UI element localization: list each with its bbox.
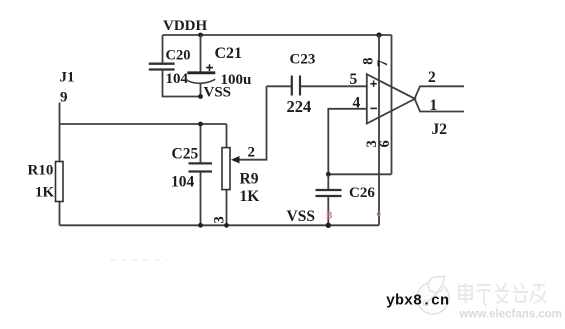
- R9 wiper wire from pin 2: [233, 86, 267, 159]
- op-amp output wires to J2: [415, 86, 464, 111]
- node R9 bottom on rail: [224, 223, 229, 228]
- wire bottom VSS rail: [60, 224, 380, 226]
- svg-text:104: 104: [171, 174, 195, 191]
- svg-text:C25: C25: [172, 146, 199, 163]
- svg-text:VSS: VSS: [287, 208, 315, 225]
- wire power line pin8/pin3 vertical: [378, 35, 380, 225]
- svg-text:9: 9: [60, 90, 68, 106]
- svg-text:104: 104: [166, 71, 189, 87]
- svg-text:R9: R9: [240, 171, 259, 188]
- svg-text:R10: R10: [28, 163, 54, 179]
- svg-text:www.elecfans.com: www.elecfans.com: [459, 309, 562, 321]
- svg-text:J2: J2: [432, 121, 448, 138]
- svg-text:C20: C20: [166, 48, 191, 64]
- svg-text:J1: J1: [60, 70, 75, 86]
- svg-text:2: 2: [428, 69, 436, 86]
- watermark logo circle: [417, 276, 449, 314]
- wire C26 bottom lead: [327, 196, 329, 225]
- capacitor C23: [292, 76, 300, 96]
- wire J1 pin9 vertical lead: [59, 103, 61, 226]
- svg-text:2: 2: [248, 145, 256, 161]
- faint artifact dashed line: [110, 259, 167, 261]
- svg-text:C23: C23: [290, 52, 316, 68]
- node VDDH junction at C21 branch: [198, 33, 203, 38]
- wire C21 bottom lead: [200, 84, 202, 97]
- svg-text:1: 1: [430, 97, 438, 114]
- capacitor C21 polarized: [187, 73, 216, 84]
- op-amp U1 triangle: [367, 74, 415, 123]
- op-amp minus input symbol: [370, 107, 377, 109]
- svg-text:3: 3: [211, 216, 227, 223]
- svg-text:C21: C21: [215, 45, 243, 62]
- node C26 bottom on rail: [326, 223, 331, 228]
- watermark chinese characters: [459, 283, 546, 305]
- wire J1 branch to R9: [60, 123, 227, 125]
- resistor R10: [56, 162, 64, 202]
- wire C23 right lead to op-amp pin5: [300, 85, 367, 87]
- node C25 bottom on rail: [198, 223, 203, 228]
- node VSS junction C20/C21: [198, 94, 203, 99]
- capacitor C26: [316, 190, 342, 196]
- C21 plus sign: [206, 64, 213, 71]
- wire C26 top lead: [327, 174, 329, 190]
- node VDDH junction at op-amp pin8 line: [376, 32, 381, 37]
- wire top VDDH rail: [163, 34, 392, 36]
- capacitor C20: [149, 64, 175, 70]
- wire power line pin7/pin6 vertical: [391, 35, 393, 174]
- svg-text:C26: C26: [349, 185, 375, 201]
- wire C20 bottom lead to VSS node: [163, 70, 201, 97]
- node branch junction at C25: [198, 122, 203, 127]
- op-amp plus input symbol: [370, 81, 376, 87]
- wire C25 branch vertical: [200, 124, 202, 225]
- wire C20 top lead: [162, 35, 164, 64]
- svg-text:ybx8.cn: ybx8.cn: [386, 293, 449, 310]
- wire C23 left lead: [267, 85, 292, 87]
- svg-text:VSS: VSS: [204, 85, 232, 101]
- svg-text:o: o: [377, 208, 382, 218]
- svg-text:224: 224: [287, 97, 312, 116]
- wire C21 top lead: [200, 35, 202, 73]
- svg-text:B: B: [326, 211, 333, 222]
- svg-text:6: 6: [377, 140, 393, 147]
- node C26 top junction: [326, 172, 331, 177]
- svg-text:1K: 1K: [35, 185, 55, 201]
- R9 wiper arrowhead: [231, 156, 240, 163]
- svg-text:1K: 1K: [240, 188, 260, 205]
- svg-text:7: 7: [375, 60, 391, 67]
- potentiometer R9 body: [222, 148, 230, 190]
- potentiometer R9 vertical lead: [226, 124, 228, 225]
- wire bottom connector pin3/pin6/C26: [328, 173, 391, 175]
- svg-text:VDDH: VDDH: [163, 18, 207, 34]
- capacitor C25: [189, 163, 213, 171]
- svg-text:5: 5: [350, 71, 358, 88]
- wire op-amp pin4 feedback to C26 node: [328, 109, 367, 175]
